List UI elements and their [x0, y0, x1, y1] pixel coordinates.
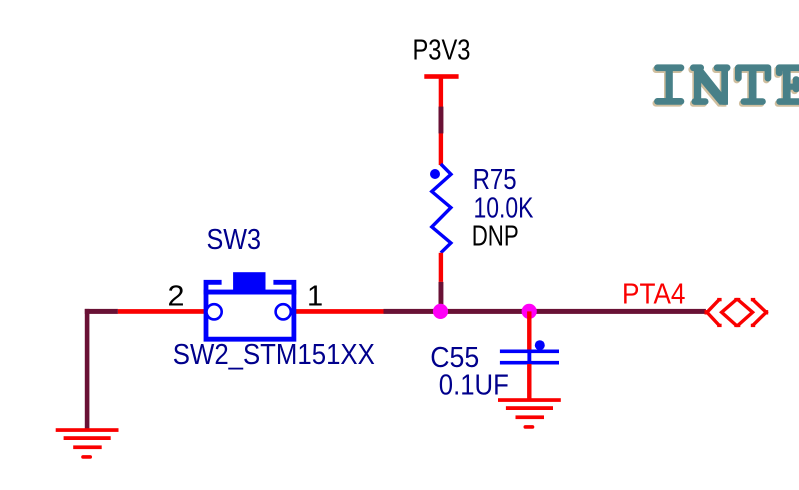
svg-text:DNP: DNP	[472, 221, 519, 253]
ground (right)	[498, 398, 561, 429]
wire left vertical maroon to ground	[85, 309, 90, 429]
wire red to switch pin 2	[118, 309, 207, 314]
junction node at resistor	[433, 304, 448, 319]
off-page connector PTA4	[707, 300, 766, 326]
svg-text:P3V3: P3V3	[413, 34, 471, 66]
wire red from switch pin 1	[292, 309, 384, 314]
wire maroon to off-page	[384, 309, 706, 314]
wire junction to capacitor (red)	[527, 311, 531, 350]
wire left stub maroon (corner)	[85, 309, 118, 314]
svg-text:PTA4: PTA4	[622, 278, 686, 310]
wire power to resistor (red with maroon segment)	[439, 77, 444, 165]
svg-text:1: 1	[307, 280, 323, 312]
svg-text:R75: R75	[473, 164, 517, 196]
capacitor C55	[500, 340, 559, 364]
svg-text:2: 2	[168, 280, 185, 312]
resistor R75	[430, 164, 451, 253]
watermark INTE (hand-drawn slab-serif letters with tan shadow)	[653, 64, 799, 106]
svg-text:10.0K: 10.0K	[474, 192, 535, 224]
ground (left)	[56, 428, 119, 459]
switch SW3	[204, 272, 297, 339]
wire capacitor to ground (red)	[527, 364, 531, 400]
wire resistor to junction (red then maroon)	[439, 253, 444, 312]
svg-text:SW2_STM151XX: SW2_STM151XX	[173, 339, 375, 371]
svg-text:0.1UF: 0.1UF	[439, 369, 509, 401]
junction node at capacitor	[522, 304, 537, 319]
svg-text:SW3: SW3	[207, 224, 262, 256]
power symbol P3V3	[424, 74, 458, 79]
